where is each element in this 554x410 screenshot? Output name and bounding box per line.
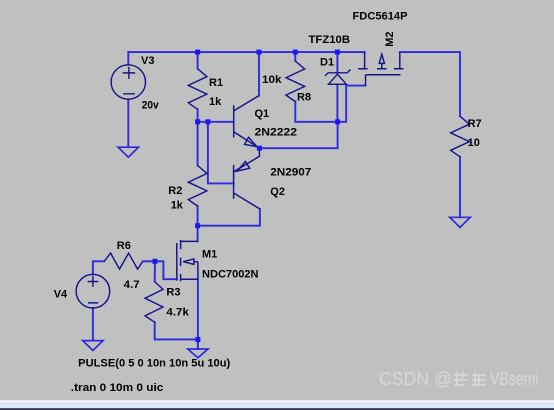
svg-text:1k: 1k [171, 200, 184, 212]
svg-text:V3: V3 [141, 55, 154, 67]
svg-text:2N2907: 2N2907 [270, 167, 311, 179]
node rail-R1 [195, 50, 200, 55]
watermark CSDN [379, 369, 539, 389]
mosfet M1 (NDC7002N nmos) [177, 240, 198, 281]
wire Q2 base drop [208, 122, 234, 184]
wire V4 bottom to ground [92, 308, 94, 341]
svg-text:R7: R7 [468, 118, 482, 130]
bottom dark line [0, 408, 554, 410]
svg-text:Q1: Q1 [255, 108, 270, 120]
node rail-Q1C [257, 50, 262, 55]
node base-Q2 [205, 119, 210, 124]
svg-text:10k: 10k [262, 74, 282, 86]
resistor R7 [451, 116, 470, 157]
wire V3 bottom to ground [127, 99, 129, 147]
wire R7 bottom lead [459, 157, 461, 218]
wire R6 right lead to gate node [143, 260, 155, 262]
wire R2 bottom to M1 drain node [197, 206, 199, 226]
wire V3 top lead [127, 52, 129, 65]
ground at V3 [118, 147, 138, 157]
wire top rail [128, 51, 364, 53]
svg-text:R1: R1 [209, 77, 223, 89]
svg-text:R3: R3 [166, 287, 180, 299]
node M1 gate [153, 259, 158, 264]
svg-text:M1: M1 [202, 249, 217, 261]
ground at V4 [83, 341, 103, 351]
node D1 anode [335, 119, 340, 124]
wire emitter node to D1 anode [259, 122, 337, 148]
svg-text:CSDN @: CSDN @ [379, 369, 452, 389]
node rail-R8 [293, 50, 298, 55]
svg-text:NDC7002N: NDC7002N [202, 268, 259, 280]
svg-text:M2: M2 [384, 32, 396, 47]
svg-text:PULSE(0 5 0 10n 10n 5u 10u): PULSE(0 5 0 10n 10n 5u 10u) [78, 358, 230, 370]
svg-text:.tran 0 10m 0 uic: .tran 0 10m 0 uic [71, 382, 164, 394]
svg-text:Q2: Q2 [270, 186, 285, 198]
wire M1 drain lead [197, 226, 199, 242]
wire base node row [198, 109, 234, 122]
svg-text:FDC5614P: FDC5614P [353, 11, 408, 23]
voltage source V3 [111, 65, 145, 99]
status bar white edge [0, 400, 554, 402]
wire V4 top lead to R6 [93, 261, 104, 274]
node M1 source gnd [195, 337, 200, 342]
resistor R3 [145, 282, 163, 323]
zener diode D1 (TFZ10B) [325, 70, 351, 85]
wire M1 source to ground node [197, 279, 199, 349]
wire Q2 collector to drain node [198, 209, 260, 226]
status bar strip [0, 402, 554, 408]
wire R3 bottom to ground node [155, 322, 198, 339]
node rail-D1 [335, 50, 340, 55]
ground at R7 [450, 217, 470, 227]
junction node dots [153, 50, 341, 342]
wire D1 anode lead [336, 84, 338, 122]
svg-text:TFZ10B: TFZ10B [309, 34, 351, 46]
resistor R2 [188, 166, 207, 207]
wire R2 top lead [197, 122, 199, 166]
wire R8 top lead [294, 52, 296, 61]
node emitters [257, 146, 262, 151]
node base-R1R2 [195, 119, 200, 124]
wire M2 gate net [338, 86, 366, 122]
wire Q1 collector [258, 52, 260, 96]
resistor R6 [104, 253, 143, 269]
transistor Q1 (npn 2N2222) [234, 96, 260, 149]
svg-text:2N2222: 2N2222 [255, 127, 298, 139]
wire R8 bottom to D1 anode junction [295, 102, 337, 122]
wire R3 top lead [154, 261, 156, 281]
svg-text:1k: 1k [209, 96, 222, 108]
svg-text:V4: V4 [54, 289, 68, 301]
wire D1 top lead [336, 52, 338, 72]
node M1 drain [195, 223, 200, 228]
svg-text:4.7k: 4.7k [166, 307, 189, 319]
wire gate node to M1 gate [155, 261, 177, 279]
svg-text:20v: 20v [142, 100, 160, 112]
wire M2 drain rail [400, 52, 460, 116]
svg-text:VBsemi: VBsemi [490, 369, 539, 389]
svg-text:D1: D1 [320, 57, 334, 69]
resistor R1 [188, 69, 207, 110]
svg-text:10: 10 [468, 137, 480, 149]
transistor Q2 (pnp 2N2907) [234, 148, 260, 209]
wire R1 top lead [197, 52, 199, 69]
resistor R8 [286, 61, 305, 102]
svg-text:4.7: 4.7 [124, 279, 140, 291]
svg-text:R2: R2 [168, 185, 182, 197]
mosfet M2 (FDC5614P pmos) [358, 52, 403, 86]
voltage source V4 [76, 274, 110, 308]
ground at M1 source [188, 349, 208, 358]
svg-text:R8: R8 [297, 92, 311, 104]
svg-text:R6: R6 [117, 240, 131, 252]
